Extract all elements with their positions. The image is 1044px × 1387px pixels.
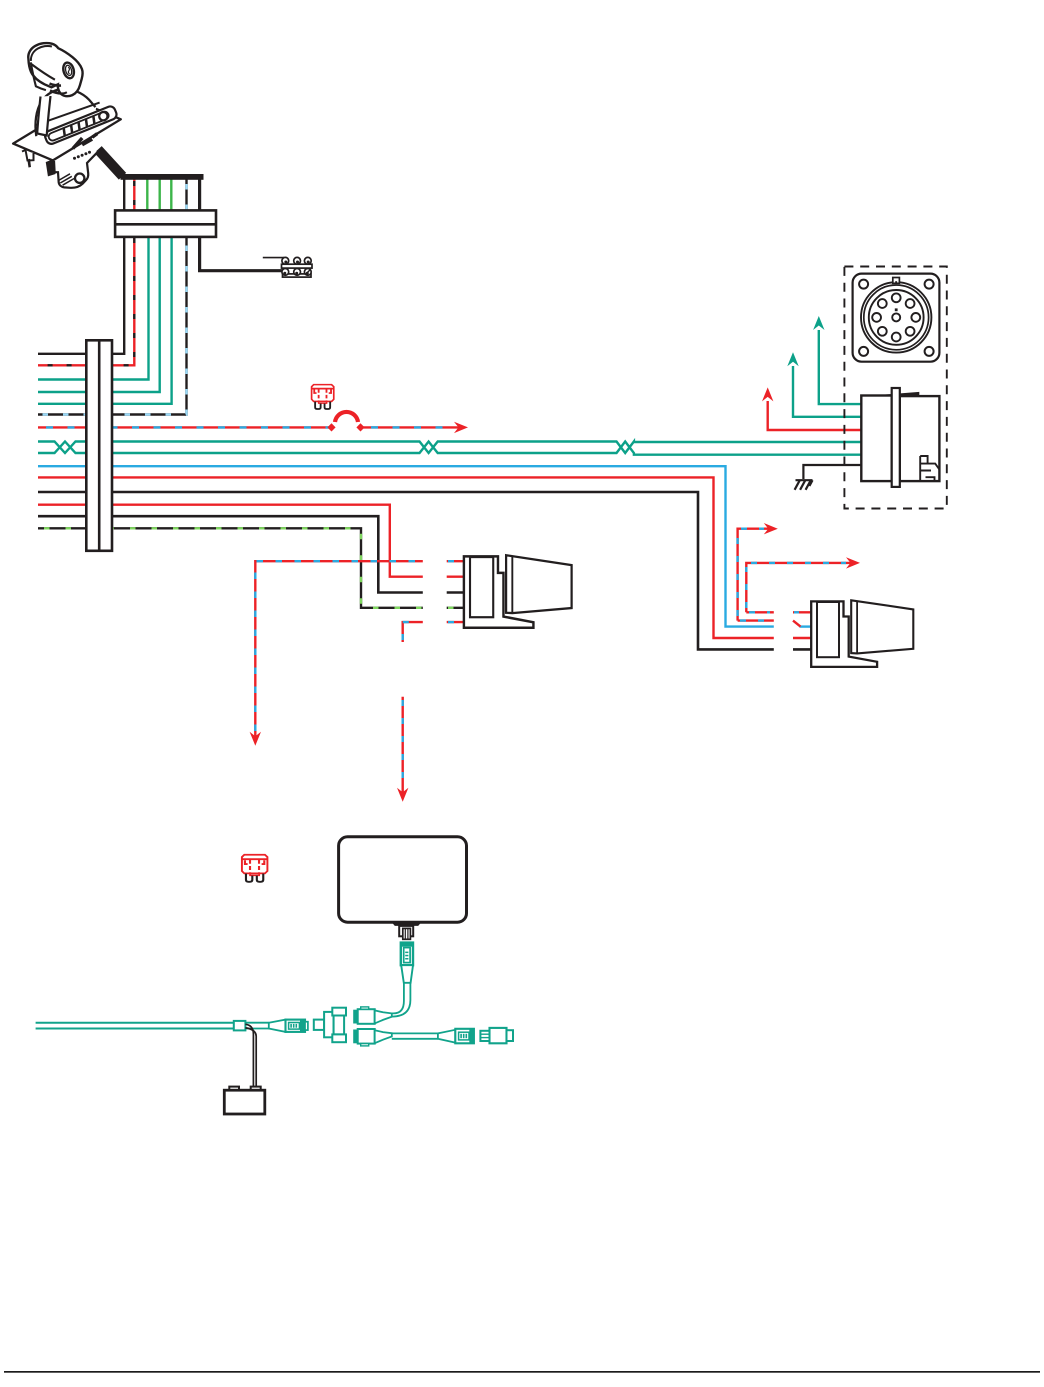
trigger notch marks — [73, 134, 97, 149]
harness top bar — [121, 174, 204, 180]
wire W9a teal twisted pair upper — [38, 442, 862, 454]
wire W5 green/teal — [170, 178, 172, 237]
network junction (4-way) — [314, 1008, 346, 1043]
lower bracket — [54, 151, 99, 188]
right ribbed connector — [455, 1029, 474, 1044]
wire W1 black (control harness pin 1) — [38, 178, 124, 354]
wire W6 black/pale-blue-dash — [38, 178, 187, 415]
connector C1 (key switch plug, side view) — [464, 555, 572, 628]
network terminator resistor — [480, 1028, 513, 1043]
base plate — [13, 103, 121, 161]
bottom rule — [4, 1371, 1040, 1373]
grip jaw — [50, 84, 62, 86]
control cable (thick) — [98, 150, 123, 177]
wire thin lead to terminal strip — [263, 257, 284, 259]
dome — [35, 89, 95, 140]
wire W15 black/green-dash — [38, 528, 423, 608]
control harness junction block — [115, 210, 216, 237]
junction bottom plug (to right cable) — [354, 1029, 392, 1046]
wire RB-A red/blue-dash to key switch, down arrow — [255, 561, 422, 737]
grip face edges — [31, 62, 46, 90]
wire W11 red — [38, 477, 774, 638]
wire black to ground — [803, 465, 861, 479]
wire W2 red/black-dash — [38, 178, 134, 365]
grip silhouette — [28, 43, 82, 96]
fuse F2 (large red blade fuse) — [242, 855, 267, 882]
wire RB-C red/blue-dash with right arrow — [738, 529, 774, 621]
wire RB-D red/blue-dash with right arrow — [746, 563, 852, 612]
ground symbol — [795, 480, 813, 490]
wire W10 blue — [38, 466, 774, 626]
left ribbed connector — [286, 1020, 308, 1032]
wire teal T2 up arrow — [793, 366, 862, 417]
mounting foot right (dark) — [47, 160, 55, 176]
left cable expander sleeve — [269, 1020, 286, 1032]
bulkhead connector bar — [86, 340, 112, 551]
wire W3 green/teal — [146, 178, 148, 237]
wire W8 red/blue-dash purple wire with fuse break — [38, 426, 330, 428]
fuse F1 (small red blade fuse) — [312, 385, 334, 409]
control head assembly — [13, 43, 203, 188]
module plug — [399, 926, 413, 939]
connector C2 (lanyard stop switch plug, side view) — [811, 600, 913, 667]
junction top plug (to module cable) — [354, 1007, 392, 1024]
module connector tab — [392, 922, 421, 926]
battery drop wire — [245, 1024, 253, 1086]
engine connector receptacle (front face) — [853, 274, 940, 362]
right network cable — [392, 1033, 438, 1038]
bezel plate with slot — [44, 105, 119, 146]
lever shaft — [37, 96, 50, 136]
wire W12 black — [38, 492, 774, 649]
grip horn inner arc — [31, 46, 52, 61]
gateway module box — [339, 837, 467, 922]
arrowhead W8 — [454, 422, 468, 433]
cable sleeve / power tap — [234, 1021, 246, 1031]
wire W7 black to terminal strip — [200, 178, 282, 271]
mounting foot left — [22, 150, 34, 161]
terminal strip (6 ring terminals) — [282, 257, 313, 277]
teal drop cable to junction — [392, 983, 404, 1014]
wire W14 black — [38, 516, 423, 592]
left network cable — [36, 1023, 234, 1029]
right cable expander sleeve — [438, 1030, 455, 1043]
wire W4 green/teal — [158, 178, 160, 237]
engine connector (side view, plugged) — [861, 388, 939, 487]
wire teal T1 up arrow — [819, 330, 862, 404]
wire red R1 up arrow — [768, 401, 862, 430]
wire W13 red — [38, 505, 423, 577]
grip button — [62, 61, 76, 79]
engine harness dashed outline box — [844, 267, 946, 509]
bezel raised edge — [36, 103, 100, 126]
wire RB-B red/blue-dash with break, down arrow — [403, 622, 423, 642]
wire W9b teal twisted pair lower — [38, 442, 862, 455]
battery — [224, 1087, 264, 1114]
fuse holder arc F1 — [335, 412, 358, 422]
teal harness plug below module — [401, 943, 413, 983]
